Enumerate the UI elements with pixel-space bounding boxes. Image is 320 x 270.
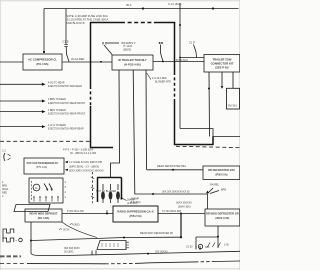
- diagonal leader from switch box corner: [62, 222, 97, 238]
- connector dots pair: [159, 42, 161, 44]
- svg-text:C1 R: C1 R: [189, 41, 195, 45]
- junction dot on drop: [208, 88, 210, 90]
- junction dot on bus right: [212, 7, 214, 9]
- svg-text:RR WDO DEFROSTER GR: RR WDO DEFROSTER GR: [206, 212, 239, 216]
- firewall boundary box: right edge lower with corner to right: [175, 102, 214, 145]
- leader diagonal to trailer box corner: [104, 45, 112, 55]
- box: rear defroster switch: [205, 209, 240, 226]
- wire: into defroster switch box top: [196, 194, 208, 209]
- box: trailer tow relay: [112, 55, 153, 70]
- wire: trailer box to tow connector box: [153, 61, 204, 63]
- junction dot at (180,25): [179, 24, 181, 26]
- svg-text:RADIO SUPPRESSION CA+X: RADIO SUPPRESSION CA+X: [117, 209, 153, 213]
- leader line to label: [107, 42, 119, 44]
- wire: line 2 solid right: [215, 260, 240, 263]
- leader lines to labels: [209, 188, 220, 194]
- svg-text:4 BRN TO REAR: 4 BRN TO REAR: [48, 98, 66, 101]
- ground lamp circle: [198, 244, 202, 248]
- junction dot on bus: [142, 7, 144, 9]
- svg-text:2-G 30 A RED: 2-G 30 A RED: [152, 77, 167, 80]
- wire: defroster grid drop: [217, 226, 219, 248]
- wire: cross link: [196, 236, 218, 238]
- box: trailer tow connector kit: [204, 55, 240, 73]
- svg-text:(30PS 30AX) - 3 X - (3BXX): (30PS 30AX) - 3 X - (3BXX): [69, 165, 99, 168]
- svg-text:C 2: C 2: [2, 150, 6, 153]
- svg-text:300 AMPS V: 300 AMPS V: [121, 41, 136, 45]
- firewall boundary box: top edge solid-left: [90, 22, 121, 24]
- relay coil circle: [33, 184, 40, 191]
- connector ticks on bottom line 1: [92, 250, 96, 254]
- torn-edge dashed band lower left: [0, 255, 21, 257]
- svg-text:TRAILER TOW: TRAILER TOW: [212, 57, 231, 61]
- connector ticks near trailer box: [103, 42, 106, 44]
- wire: stepped run to right edge: [180, 129, 240, 137]
- box: rear defroster grid (right): [203, 166, 240, 179]
- wire: trailer box drop 1 to relay area: [111, 70, 120, 177]
- junction dot: [179, 57, 181, 59]
- relay contact arms: [44, 184, 53, 191]
- connector arrow ticks on dashed line: [91, 177, 94, 198]
- svg-text:30X: 30X: [205, 246, 210, 249]
- wire: bottom harness line 1: [38, 251, 240, 255]
- firewall boundary box: right edge dashed: [174, 72, 176, 102]
- junction dot on trailer output wire: [162, 61, 164, 63]
- wire: defroster switch drop thick: [180, 214, 182, 238]
- svg-text:20-GA RED: 20-GA RED: [71, 57, 84, 61]
- pin number column right of relay: [65, 182, 67, 199]
- svg-text:3 30: 3 30: [224, 243, 229, 246]
- connector block mid-left (parallelogram): [14, 205, 50, 212]
- firewall boundary box: top edge dashed: [121, 22, 154, 24]
- scan page edge left: [0, 0, 1, 270]
- firewall boundary box: left edge lower: [90, 106, 92, 148]
- dashed body line right: [176, 146, 240, 147]
- hatch ticks bottom right: [207, 243, 220, 248]
- svg-text:30 (30X): 30 (30X): [64, 251, 74, 254]
- junction dot: [180, 213, 182, 215]
- svg-text:EJECTION SWITCH REAR FRONT: EJECTION SWITCH REAR FRONT: [48, 112, 86, 115]
- wire: C1-R drop into connector box: [180, 57, 204, 59]
- wire: left harness arrow 4: [0, 126, 43, 128]
- firewall boundary box: right edge upper: [174, 22, 176, 72]
- junction dot mid: [123, 237, 125, 239]
- svg-text:B RD AUX: B RD AUX: [176, 58, 188, 62]
- wire: line 2 leading dashes at left edge: [0, 263, 26, 265]
- blower enclosure: top edge: [97, 177, 122, 179]
- svg-text:30 - (2BOX) 3.0-2 2-300: 30 - (2BOX) 3.0-2 2-300: [70, 152, 97, 155]
- svg-text:(SEE P 45): (SEE P 45): [215, 66, 228, 70]
- svg-text:4-DG TO REAR: 4-DG TO REAR: [48, 81, 65, 84]
- arrowhead down: [221, 86, 224, 89]
- svg-text:30XX 30XXXX: 30XX 30XXXX: [176, 201, 192, 204]
- leader: blower label to wire: [147, 73, 151, 80]
- svg-text:30 XX: 30 XX: [63, 229, 70, 232]
- svg-text:P 202 30-G RD: P 202 30-G RD: [67, 210, 84, 213]
- capacitor element 2: [110, 184, 112, 190]
- scan page edge bottom: [0, 268, 240, 270]
- junction dot at box entry: [43, 51, 45, 53]
- box: blower relay: [29, 178, 63, 203]
- scan page edge right: [239, 0, 241, 270]
- svg-text:30XX 30RX XXXXXXX 30XXXX: 30XX 30RX XXXXXXX 30XXXX: [69, 170, 104, 173]
- leader to relay note: [123, 199, 127, 201]
- circuit breaker square-wave symbol: [3, 229, 14, 233]
- connector C2 arc symbol: [4, 153, 5, 161]
- svg-text:C1 E: C1 E: [63, 40, 69, 44]
- connector block C2 (parallelogram): [97, 241, 126, 250]
- wire: defroster feed across to switch: [135, 193, 196, 196]
- junction dot: [30, 240, 32, 242]
- wire: radio box to defroster switch box: [158, 213, 205, 215]
- svg-text:EJECTION SWITCH AND REAR: EJECTION SWITCH AND REAR: [48, 85, 82, 88]
- firewall boundary box: left edge dashed: [90, 86, 92, 106]
- svg-text:EJECTION SWITCH REAR FRONT: EJECTION SWITCH REAR FRONT: [48, 102, 86, 105]
- wire: trailer box drop 3 down to rear defroster wire: [145, 70, 148, 170]
- svg-text:(P/B 2 0A): (P/B 2 0A): [129, 214, 141, 218]
- connector block ticks: [126, 242, 129, 248]
- junction dot on defroster wire: [172, 169, 174, 171]
- box: radio suppression: [113, 206, 158, 222]
- junction dot on feed: [152, 193, 154, 195]
- svg-text:REAR DEFROSTER REL: REAR DEFROSTER REL: [157, 164, 187, 168]
- wire: connector stub up: [179, 3, 181, 9]
- arrowhead up at switch entry: [206, 191, 209, 194]
- dashed connector line right of relay: [92, 172, 94, 203]
- svg-text:BLOWER MTR: BLOWER MTR: [155, 82, 171, 84]
- svg-text:IS LOCATED AT THE CASE 30GA: IS LOCATED AT THE CASE 30GA: [66, 18, 108, 22]
- svg-text:2 BRN TO REAR: 2 BRN TO REAR: [48, 109, 66, 112]
- dashed body line left: [0, 140, 90, 142]
- svg-text:REAR WDO DEFROST: REAR WDO DEFROST: [29, 211, 57, 215]
- wire: left harness arrow 2: [0, 100, 43, 102]
- box: heater switch (bottom-left): [25, 209, 62, 222]
- junction dot: [106, 213, 108, 215]
- leader from C1-R label: [194, 45, 197, 58]
- wire: into A/C box from left edge: [0, 61, 23, 63]
- svg-text:CONNECTOR KIT: CONNECTOR KIT: [211, 61, 234, 65]
- svg-text:RR DEFROSTER XXX: RR DEFROSTER XXX: [208, 168, 235, 172]
- svg-text:2 2 GAGE 30 LPG 30RXX P/B: 2 2 GAGE 30 LPG 30RXX P/B: [69, 161, 102, 164]
- junction dot: [217, 236, 219, 238]
- svg-text:C-14 (30A): C-14 (30A): [168, 2, 182, 6]
- svg-text:3 3 30 (30AX RD): 3 3 30 (30AX RD): [162, 210, 181, 213]
- svg-text:AND BLOCK B: AND BLOCK B: [66, 21, 85, 25]
- wire: lower run to defroster drop: [31, 237, 181, 240]
- svg-text:NOTE: A 30 AMP FUSE LINK 30A: NOTE: A 30 AMP FUSE LINK 30A: [66, 14, 108, 18]
- svg-text:REAR WDO DEFROSTER FD: REAR WDO DEFROSTER FD: [140, 232, 173, 235]
- svg-text:(2BXX): (2BXX): [123, 48, 131, 52]
- wire: short drop to ground lamp: [195, 237, 197, 248]
- svg-text:(3-B 30X): (3-B 30X): [130, 201, 141, 204]
- svg-text:RH REL: RH REL: [210, 184, 220, 187]
- svg-text:H- 1234: H- 1234: [123, 44, 133, 48]
- arrowheads pointing to box right edge: [65, 161, 68, 163]
- curl label marks: [59, 224, 73, 230]
- svg-text:W TRAILER TOW RLY: W TRAILER TOW RLY: [118, 58, 147, 62]
- svg-text:RLY BX: RLY BX: [228, 104, 237, 108]
- relay terminal dots: [33, 196, 34, 197]
- svg-text:BRN: BRN: [221, 189, 226, 192]
- wire: connector-kit drop 2 with arrow: [221, 72, 223, 87]
- junction dot: [180, 236, 182, 238]
- firewall boundary box: left edge upper: [90, 22, 92, 86]
- svg-text:+: +: [15, 238, 17, 242]
- junction dot on A/C wire: [100, 61, 102, 63]
- svg-text:30 A: 30 A: [126, 3, 132, 7]
- tick on wire: [106, 210, 108, 213]
- inner pin marks: [102, 243, 118, 247]
- wire: connector-kit drop 1 long: [208, 72, 211, 137]
- svg-text:30X 30X 30XXXXXXX 30: 30X 30X 30XXXXXXX 30: [162, 190, 190, 193]
- wire: connector-kit drop 3: [232, 72, 234, 88]
- svg-text:XXX XXX PASSENGER AC: XXX XXX PASSENGER AC: [27, 161, 59, 165]
- relay inner dashed edge: [31, 181, 33, 200]
- capacitor element 1: [102, 184, 104, 190]
- wire: left harness arrow 3: [0, 111, 43, 113]
- wire: bottom harness line 2 solid left: [27, 263, 105, 265]
- wire: switch box drop joining harness line 1: [30, 222, 32, 253]
- left margin wire-code stack: [2, 181, 9, 198]
- svg-text:(30AX 30X): (30AX 30X): [178, 206, 191, 209]
- svg-text:(H-POS 4 8A): (H-POS 4 8A): [124, 62, 141, 66]
- svg-text:(30X): (30X): [74, 224, 80, 227]
- wire: below connector to A/C feed wire: [66, 47, 69, 62]
- svg-text:EJECTION SWITCH REAR REAR: EJECTION SWITCH REAR REAR: [48, 127, 84, 130]
- wire: line 2 dashed right: [195, 261, 215, 263]
- capacitor element 3: [117, 184, 119, 190]
- wire: line 2 dashed mid: [105, 263, 135, 265]
- svg-text:AC COMPRESSOR CL: AC COMPRESSOR CL: [28, 57, 57, 61]
- relay terminal ticks: [34, 198, 58, 202]
- svg-text:NOT TO BLOWER: NOT TO BLOWER: [96, 190, 117, 193]
- box: A/C compressor relay: [23, 54, 62, 70]
- svg-text:(PG 4 8A): (PG 4 8A): [38, 216, 50, 220]
- leader from connector to wire junction: [161, 45, 164, 62]
- svg-text:4-P-S ~ P-200 - 3-208 30XX: 4-P-S ~ P-200 - 3-208 30XX: [63, 149, 94, 152]
- svg-text:30X 30XXX: 30X 30XXX: [155, 250, 168, 253]
- svg-text:C1 30: C1 30: [186, 245, 193, 248]
- connector C1-E ticks: [64, 45, 67, 47]
- wire: rear defroster feed to grid box: [147, 169, 204, 171]
- firewall boundary box: bottom-left stub: [90, 147, 113, 149]
- blower enclosure: left edge: [97, 178, 99, 203]
- svg-text:(30XX 3 0X): (30XX 3 0X): [215, 216, 229, 220]
- wire: top feed bus: [44, 8, 239, 10]
- svg-text:30AMP: 30AMP: [131, 197, 139, 200]
- wire: line 2 solid mid: [135, 262, 195, 264]
- box: small junction block right edge: [227, 88, 240, 109]
- wire: long drop from bus at x180: [179, 9, 181, 129]
- wire: drop to A/C compressor box: [43, 9, 45, 53]
- junction dot on line 1: [147, 253, 149, 255]
- ground circle with plus: [19, 238, 23, 242]
- firewall boundary box: top edge solid-right: [154, 22, 175, 24]
- svg-text:(P/B 0 5A): (P/B 0 5A): [215, 172, 227, 176]
- svg-text:(PG 4 8A): (PG 4 8A): [37, 62, 49, 66]
- svg-text:4 LT-G TO REAR: 4 LT-G TO REAR: [48, 124, 66, 127]
- wire: switch to radio capacitor: [62, 213, 113, 215]
- box: rear A/C control head: [24, 158, 64, 174]
- wire: left harness arrow 1: [0, 83, 43, 85]
- wire: trailer box drop 2 down to defroster feed: [133, 70, 135, 194]
- wire: drop through connector C1-E: [65, 9, 67, 45]
- scan page edge top: [0, 0, 240, 2]
- blower enclosure: right stub down: [121, 178, 123, 199]
- svg-text:(P75 4 0A): (P75 4 0A): [36, 166, 47, 169]
- junction dot at stub end: [120, 197, 122, 199]
- wire: A/C box to trailer relay box: [62, 61, 112, 63]
